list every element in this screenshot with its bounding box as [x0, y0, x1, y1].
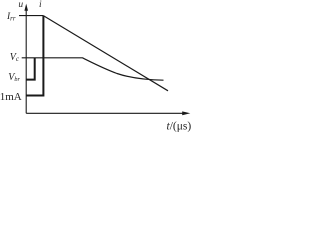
x-axis t	[26, 112, 184, 114]
svg-text:u: u	[18, 0, 23, 10]
svg-text:Vc: Vc	[10, 52, 20, 63]
thick step: Vbr level up to Vc	[26, 58, 35, 80]
y-axis u	[25, 8, 27, 113]
Vc level line with tick and clamping curve	[22, 58, 164, 80]
y-axis arrowhead	[24, 4, 28, 11]
svg-text:Vbr: Vbr	[8, 72, 20, 83]
svg-text:1mA: 1mA	[0, 91, 22, 103]
Irr level line with tick	[19, 15, 43, 17]
thick step: vertical drop and 1mA level	[26, 16, 43, 96]
x-axis arrowhead	[182, 111, 190, 115]
current decay diagonal	[43, 16, 168, 91]
svg-text:i: i	[39, 0, 42, 10]
svg-text:Irr: Irr	[6, 12, 16, 22]
svg-text:t/(μs): t/(μs)	[167, 121, 192, 133]
